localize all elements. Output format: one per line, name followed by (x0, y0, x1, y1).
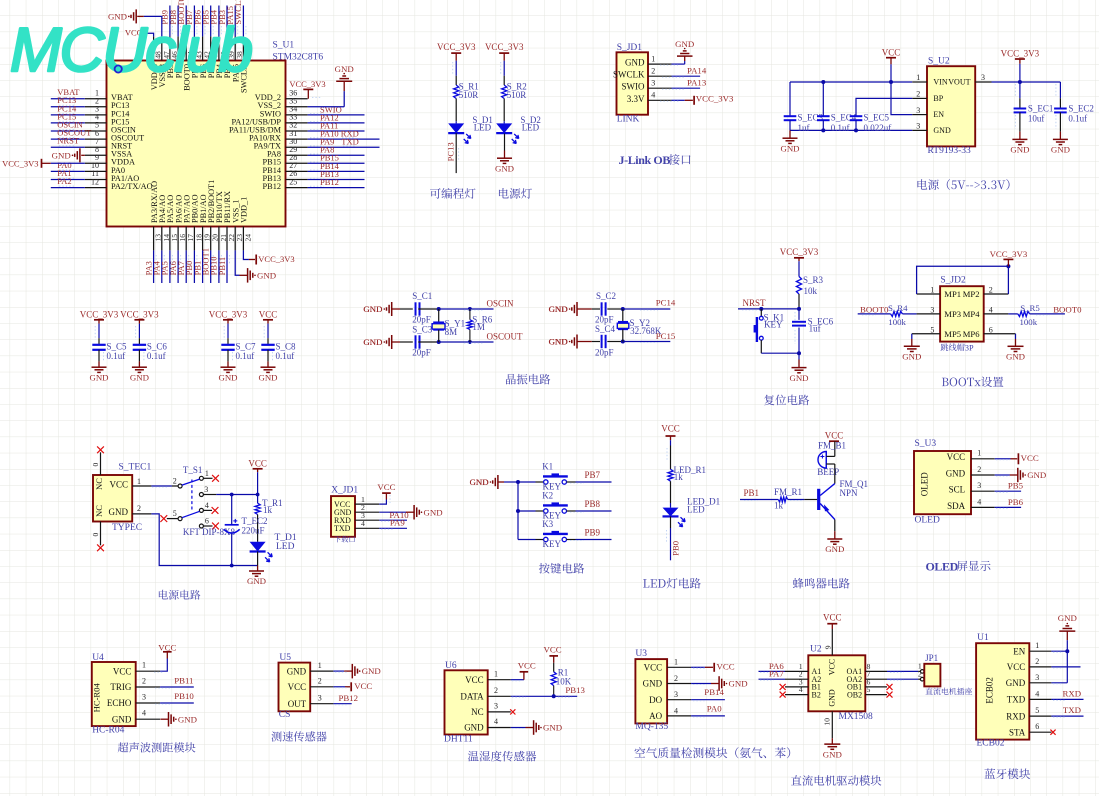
svg-text:NRST: NRST (743, 298, 767, 308)
svg-text:K2: K2 (542, 490, 553, 500)
svg-text:GND: GND (789, 373, 808, 383)
svg-text:VCC_3V3: VCC_3V3 (1001, 48, 1040, 58)
svg-text:VCC_3V3: VCC_3V3 (289, 79, 325, 89)
svg-text:SDA: SDA (947, 501, 966, 511)
svg-text:NPN: NPN (840, 488, 859, 498)
svg-text:VCC: VCC (109, 479, 128, 489)
svg-text:GND: GND (549, 304, 568, 314)
svg-text:GND: GND (827, 689, 836, 707)
svg-text:10k: 10k (804, 286, 818, 296)
svg-text:PB1: PB1 (744, 488, 760, 498)
svg-text:U2: U2 (810, 645, 822, 655)
svg-text:GND: GND (464, 723, 484, 733)
svg-text:FM_R1: FM_R1 (774, 487, 802, 497)
svg-text:VCC_3V3: VCC_3V3 (80, 309, 119, 319)
svg-text:U1: U1 (977, 633, 989, 643)
svg-text:3: 3 (977, 481, 981, 490)
svg-text:2: 2 (977, 465, 981, 474)
svg-text:GND: GND (89, 372, 108, 382)
svg-text:GND: GND (287, 666, 307, 676)
svg-text:1k: 1k (774, 500, 784, 510)
svg-text:MQ-135: MQ-135 (635, 722, 668, 732)
svg-text:PB8: PB8 (585, 499, 601, 509)
svg-text:PB7: PB7 (585, 470, 601, 480)
svg-text:K3: K3 (542, 519, 553, 529)
svg-text:3P: 3P (965, 343, 974, 352)
svg-text:4: 4 (977, 497, 981, 506)
svg-text:PB10: PB10 (174, 691, 194, 701)
svg-text:S_R4: S_R4 (888, 303, 908, 313)
svg-text:S_EC5: S_EC5 (864, 113, 890, 123)
svg-text:PA13: PA13 (687, 77, 707, 87)
svg-text:PA2: PA2 (57, 176, 71, 186)
svg-text:KEY: KEY (764, 320, 783, 330)
svg-text:GND: GND (643, 679, 663, 689)
svg-text:VCC: VCC (113, 666, 132, 676)
svg-text:KEY: KEY (543, 539, 562, 549)
svg-text:OUT: OUT (288, 699, 307, 709)
svg-text:4: 4 (361, 519, 365, 528)
svg-text:3: 3 (318, 694, 322, 703)
svg-text:VCC_3V3: VCC_3V3 (696, 94, 734, 104)
svg-text:ECHO: ECHO (107, 698, 132, 708)
svg-text:TXD: TXD (1007, 695, 1026, 705)
svg-text:2: 2 (916, 90, 920, 99)
svg-text:4: 4 (799, 685, 803, 694)
svg-text:5: 5 (1035, 706, 1039, 715)
svg-text:PC13: PC13 (446, 142, 456, 161)
svg-text:GND: GND (1006, 352, 1025, 362)
svg-text:VCC: VCC (544, 644, 562, 654)
svg-text:2: 2 (137, 504, 141, 513)
svg-text:VCC_3V3: VCC_3V3 (437, 42, 476, 52)
svg-text:0.1uf: 0.1uf (107, 351, 126, 361)
svg-text:BP: BP (933, 94, 943, 103)
svg-text:3: 3 (1035, 673, 1039, 682)
svg-text:3: 3 (494, 702, 498, 711)
svg-text:GND: GND (109, 507, 129, 517)
svg-text:PA7: PA7 (769, 669, 784, 679)
svg-text:4: 4 (494, 717, 498, 726)
svg-text:STA: STA (1009, 727, 1026, 737)
svg-text:PA9: PA9 (390, 518, 405, 528)
svg-text:6: 6 (1035, 722, 1039, 731)
svg-text:6: 6 (989, 325, 993, 334)
svg-text:TXD: TXD (334, 524, 351, 533)
svg-text:GND: GND (218, 372, 237, 382)
svg-text:GND: GND (549, 337, 568, 347)
svg-text:VCC_3V3: VCC_3V3 (258, 254, 294, 264)
svg-text:MP5: MP5 (944, 329, 961, 339)
svg-text:1uf: 1uf (798, 123, 810, 133)
svg-text:X_JD1: X_JD1 (331, 485, 358, 495)
svg-text:VCC: VCC (288, 682, 307, 692)
svg-text:S_U2: S_U2 (928, 57, 950, 67)
svg-text:100k: 100k (888, 317, 906, 327)
svg-text:GND: GND (1051, 145, 1070, 155)
svg-text:3: 3 (142, 692, 146, 701)
svg-text:GND: GND (247, 576, 266, 586)
svg-text:SWIO: SWIO (622, 82, 645, 92)
svg-text:10: 10 (823, 718, 832, 726)
svg-text:PB5: PB5 (1008, 481, 1024, 491)
svg-text:VCC: VCC (248, 458, 267, 468)
svg-text:STM32C8T6: STM32C8T6 (273, 53, 324, 63)
svg-text:S_C5: S_C5 (107, 342, 128, 352)
svg-text:S_U1: S_U1 (273, 41, 295, 51)
svg-text:BOOT0: BOOT0 (1053, 304, 1082, 314)
svg-text:GND: GND (1027, 470, 1046, 480)
svg-text:VCC: VCC (158, 642, 176, 652)
svg-text:NC: NC (94, 478, 104, 490)
svg-text:1: 1 (1035, 641, 1039, 650)
svg-text:S_C8: S_C8 (276, 342, 297, 352)
svg-text:LINK: LINK (617, 115, 640, 125)
svg-text:NRST: NRST (57, 136, 80, 146)
svg-text:4: 4 (989, 305, 993, 314)
svg-text:S_C3: S_C3 (412, 324, 433, 334)
svg-text:5: 5 (930, 325, 934, 334)
svg-text:VCC: VCC (717, 662, 735, 672)
svg-text:PB12: PB12 (263, 182, 281, 191)
svg-text:GND: GND (1006, 678, 1026, 688)
svg-text:1k: 1k (263, 505, 273, 515)
svg-text:RT9193-33: RT9193-33 (928, 146, 971, 156)
svg-text:GND: GND (112, 714, 132, 724)
svg-text:24: 24 (243, 234, 252, 242)
svg-text:0.1uf: 0.1uf (147, 351, 166, 361)
svg-text:B2: B2 (812, 690, 821, 699)
svg-text:U6: U6 (445, 661, 457, 671)
svg-text:20pF: 20pF (595, 347, 614, 357)
svg-text:2: 2 (142, 676, 146, 685)
svg-text:VCC: VCC (259, 309, 278, 319)
svg-text:T_S1: T_S1 (183, 465, 203, 475)
svg-text:S_R5: S_R5 (1020, 303, 1040, 313)
svg-text:DHT11: DHT11 (444, 735, 473, 745)
svg-text:SWCLK: SWCLK (613, 70, 645, 80)
svg-text:2: 2 (494, 686, 498, 695)
svg-text:3: 3 (916, 122, 920, 131)
svg-text:JP1: JP1 (925, 653, 938, 663)
svg-text:K1: K1 (542, 461, 553, 471)
svg-text:VCC_3V3: VCC_3V3 (2, 159, 38, 169)
svg-text:PB12: PB12 (320, 177, 339, 187)
svg-text:GND: GND (825, 544, 844, 554)
svg-text:PB9: PB9 (585, 527, 601, 537)
svg-text:MP1: MP1 (944, 289, 961, 299)
svg-text:0: 0 (91, 533, 100, 537)
svg-text:GND: GND (1010, 145, 1029, 155)
svg-text:PA0: PA0 (707, 703, 722, 713)
svg-text:U5: U5 (279, 653, 291, 663)
svg-text:VCC: VCC (1021, 453, 1039, 463)
svg-text:GND: GND (470, 477, 489, 487)
svg-text:4: 4 (205, 501, 209, 510)
svg-text:MP2: MP2 (963, 289, 980, 299)
svg-text:5: 5 (173, 509, 177, 518)
svg-text:PA2/TX/AO: PA2/TX/AO (111, 182, 153, 191)
svg-text:LED: LED (276, 542, 295, 552)
svg-text:GND: GND (625, 58, 645, 68)
svg-text:1: 1 (977, 449, 981, 458)
svg-text:3: 3 (930, 305, 934, 314)
svg-text:1M: 1M (472, 322, 485, 332)
svg-text:2: 2 (173, 477, 177, 486)
svg-text:MX1508: MX1508 (839, 712, 874, 722)
svg-text:GND: GND (495, 163, 514, 173)
svg-text:GND: GND (729, 679, 748, 689)
svg-text:5: 5 (867, 685, 871, 694)
svg-text:PB6: PB6 (1008, 497, 1024, 507)
svg-text:T_EC2: T_EC2 (242, 516, 268, 526)
svg-text:0.1uf: 0.1uf (831, 123, 850, 133)
svg-text:2: 2 (674, 674, 678, 683)
svg-text:GND: GND (675, 39, 694, 49)
svg-text:VCC: VCC (825, 431, 844, 441)
svg-text:AO: AO (649, 711, 662, 721)
svg-text:4: 4 (674, 706, 678, 715)
svg-text:VCC: VCC (465, 675, 484, 685)
svg-text:S_C7: S_C7 (236, 342, 257, 352)
svg-text:S_R3: S_R3 (803, 275, 824, 285)
svg-text:2: 2 (651, 66, 655, 75)
svg-text:DO: DO (649, 695, 662, 705)
svg-text:PC14: PC14 (656, 298, 676, 308)
svg-text:GND: GND (52, 150, 71, 160)
svg-text:GND: GND (363, 304, 382, 314)
svg-text:DATA: DATA (460, 692, 484, 702)
svg-text:GND: GND (902, 352, 921, 362)
svg-text:0: 0 (91, 463, 100, 467)
svg-text:ECB02: ECB02 (985, 677, 995, 704)
svg-text:PC15: PC15 (656, 331, 676, 341)
svg-text:1: 1 (916, 73, 920, 82)
svg-text:PB14: PB14 (704, 687, 724, 697)
svg-text:GND: GND (933, 126, 951, 135)
svg-text:220uF: 220uF (242, 526, 265, 536)
svg-text:MP4: MP4 (963, 309, 980, 319)
svg-text:VCC: VCC (354, 681, 372, 691)
svg-text:GND: GND (823, 749, 842, 759)
svg-text:4: 4 (1035, 689, 1039, 698)
svg-text:12: 12 (91, 177, 99, 186)
svg-text:TYPEC: TYPEC (112, 523, 142, 533)
svg-text:3: 3 (651, 78, 655, 87)
svg-text:PB12: PB12 (339, 693, 359, 703)
svg-text:GND: GND (362, 666, 381, 676)
svg-text:VCC: VCC (823, 613, 842, 623)
svg-text:S_EC2: S_EC2 (1068, 103, 1094, 113)
svg-text:LED: LED (522, 123, 540, 133)
svg-text:1: 1 (142, 661, 146, 670)
svg-text:VCC_3V3: VCC_3V3 (485, 42, 524, 52)
svg-text:1: 1 (930, 286, 934, 295)
svg-text:8M: 8M (445, 327, 458, 337)
svg-text:ECB02: ECB02 (977, 739, 1005, 749)
svg-text:BOOT0: BOOT0 (860, 304, 889, 314)
svg-text:9: 9 (823, 645, 832, 649)
svg-text:25: 25 (289, 177, 297, 186)
svg-text:S_C4: S_C4 (595, 324, 616, 334)
svg-text:S_C6: S_C6 (147, 342, 168, 352)
svg-text:20pF: 20pF (412, 347, 431, 357)
svg-text:510R: 510R (507, 90, 527, 100)
svg-text:OLED: OLED (920, 472, 930, 496)
svg-text:VCC: VCC (947, 452, 966, 462)
svg-text:3: 3 (674, 690, 678, 699)
svg-text:J-Link OB: J-Link OB (619, 153, 671, 167)
svg-text:VCC: VCC (661, 424, 680, 434)
svg-text:S_JD1: S_JD1 (617, 43, 643, 53)
svg-text:4: 4 (651, 91, 655, 100)
svg-text:1: 1 (494, 669, 498, 678)
svg-text:1: 1 (318, 661, 322, 670)
svg-text:LED: LED (474, 123, 492, 133)
svg-text:3: 3 (204, 485, 208, 494)
svg-text:20pF: 20pF (412, 315, 431, 325)
svg-text:4: 4 (142, 709, 146, 718)
svg-text:0.022uf: 0.022uf (864, 123, 892, 133)
svg-text:S_JD2: S_JD2 (940, 276, 966, 286)
svg-text:0.1uf: 0.1uf (276, 351, 295, 361)
svg-text:RXD: RXD (1063, 689, 1082, 699)
svg-text:TXD: TXD (1063, 705, 1081, 715)
svg-text:VCC: VCC (1007, 662, 1026, 672)
svg-text:U3: U3 (635, 649, 647, 659)
svg-text:HC-R04: HC-R04 (92, 683, 102, 713)
svg-text:VCC: VCC (377, 482, 395, 492)
svg-text:0.1uf: 0.1uf (1068, 113, 1087, 123)
svg-text:MP3: MP3 (944, 309, 961, 319)
svg-text:GND: GND (130, 372, 149, 382)
svg-text:TXD: TXD (341, 137, 358, 147)
svg-text:VCC_3V3: VCC_3V3 (120, 309, 159, 319)
svg-text:VCC_3V3: VCC_3V3 (209, 309, 248, 319)
svg-text:VCC_3V3: VCC_3V3 (990, 249, 1028, 259)
svg-text:GND: GND (257, 270, 276, 280)
svg-text:510R: 510R (459, 90, 479, 100)
svg-text:100k: 100k (1020, 317, 1038, 327)
svg-text:6: 6 (205, 517, 209, 526)
svg-text:MP6: MP6 (963, 329, 980, 339)
svg-text:CS: CS (279, 710, 291, 720)
svg-text:PA14: PA14 (687, 65, 707, 75)
svg-text:MCUclub: MCUclub (10, 16, 251, 85)
svg-text:OSCIN: OSCIN (487, 298, 515, 308)
svg-text:OLED: OLED (915, 515, 940, 525)
svg-text:S_C1: S_C1 (412, 291, 432, 301)
svg-text:GND: GND (363, 337, 382, 347)
svg-text:GND: GND (178, 714, 197, 724)
svg-text:VCC: VCC (827, 659, 836, 675)
svg-text:10uf: 10uf (1028, 113, 1045, 123)
svg-text:GND: GND (1058, 613, 1077, 623)
svg-text:1: 1 (651, 54, 655, 63)
svg-text:PB11: PB11 (217, 257, 227, 276)
svg-text:3: 3 (981, 73, 985, 82)
svg-text:VCC_3V3: VCC_3V3 (780, 247, 819, 257)
svg-text:RXD: RXD (1006, 711, 1026, 721)
svg-text:S_TEC1: S_TEC1 (119, 462, 152, 472)
svg-text:BEEP: BEEP (817, 467, 839, 477)
svg-text:1: 1 (205, 469, 209, 478)
svg-text:2: 2 (989, 286, 993, 295)
svg-text:EN: EN (1013, 646, 1025, 656)
svg-text:VOUT: VOUT (948, 78, 970, 87)
svg-text:VDD_1: VDD_1 (240, 197, 249, 223)
svg-text:HC-R04: HC-R04 (92, 726, 124, 736)
svg-text:2: 2 (1035, 657, 1039, 666)
svg-text:3: 3 (916, 106, 920, 115)
svg-text:OB2: OB2 (847, 690, 862, 699)
svg-text:VIN: VIN (933, 78, 947, 87)
svg-text:1: 1 (137, 477, 141, 486)
svg-text:VCC: VCC (644, 663, 663, 673)
svg-text:S_U3: S_U3 (915, 439, 937, 449)
svg-text:3.3V: 3.3V (627, 94, 645, 104)
svg-text:PB0: PB0 (670, 541, 680, 556)
svg-text:2: 2 (318, 677, 322, 686)
svg-text:NC: NC (471, 707, 484, 717)
svg-text:OSCOUT: OSCOUT (487, 331, 524, 341)
svg-text:U4: U4 (92, 653, 104, 663)
svg-text:SCL: SCL (949, 485, 966, 495)
svg-text:GND: GND (424, 507, 443, 517)
svg-text:0.1uf: 0.1uf (236, 351, 255, 361)
svg-text:GND: GND (780, 143, 799, 153)
svg-text:2: 2 (918, 669, 922, 678)
svg-text:VCC: VCC (882, 47, 901, 57)
svg-text:LED: LED (687, 505, 705, 515)
svg-text:1k: 1k (674, 472, 684, 482)
svg-text:S_EC1: S_EC1 (1028, 103, 1054, 113)
svg-text:1: 1 (674, 658, 678, 667)
svg-text:TRIG: TRIG (110, 682, 131, 692)
svg-text:EN: EN (933, 110, 944, 119)
svg-text:NC: NC (94, 505, 104, 517)
svg-text:GND: GND (335, 64, 354, 74)
svg-text:OLED: OLED (926, 560, 959, 574)
svg-text:1uf: 1uf (809, 324, 821, 334)
svg-text:VCC: VCC (518, 660, 536, 670)
svg-text:FM_B1: FM_B1 (818, 441, 846, 451)
svg-text:PB13: PB13 (565, 685, 585, 695)
svg-text:GND: GND (258, 372, 277, 382)
svg-text:S_C2: S_C2 (596, 291, 616, 301)
svg-text:PB11: PB11 (174, 675, 193, 685)
svg-text:GND: GND (946, 468, 966, 478)
svg-text:GND: GND (543, 723, 562, 733)
